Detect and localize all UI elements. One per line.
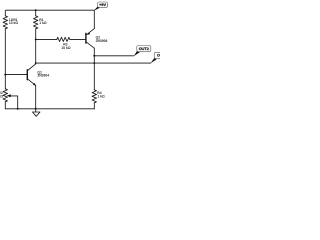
potentiometer R2 — [3, 89, 7, 102]
wire B Q1 collector node — [36, 62, 151, 65]
node A dot — [4, 74, 6, 76]
svg-text:2N3906: 2N3906 — [96, 39, 108, 43]
svg-text:10 kΩ: 10 kΩ — [9, 21, 19, 25]
svg-text:+9V: +9V — [99, 3, 106, 7]
wire top +9V rail — [5, 10, 94, 16]
node dot Q1 collector elbow — [35, 62, 37, 64]
power flag +9V — [94, 7, 100, 11]
wire jog A to B — [93, 56, 95, 63]
transistor Q2 body — [85, 33, 87, 43]
wire R3 left lead — [36, 38, 57, 40]
resistor R1 — [34, 16, 38, 29]
node dot wiper bottom — [17, 108, 19, 110]
wire base of Q1 from node A — [5, 74, 27, 76]
svg-text:10 kΩ: 10 kΩ — [61, 46, 71, 50]
net flag OUT1 clipped — [150, 58, 156, 63]
ground — [35, 109, 37, 112]
resistor LDR1 — [3, 16, 7, 29]
wire Q2 collector vertical — [93, 48, 95, 56]
wire Q1 emitter to ground rail — [35, 85, 37, 108]
node dot ground tap — [35, 108, 37, 110]
wire R4 top lead — [93, 63, 95, 90]
svg-text:1 kΩ: 1 kΩ — [97, 95, 105, 99]
resistor R4 — [92, 90, 96, 103]
wire R3 right lead to Q2 base — [70, 38, 86, 40]
svg-text:OUT2: OUT2 — [139, 47, 149, 51]
node dot wire A junction — [93, 55, 95, 57]
arrow Q1 emitter — [33, 83, 36, 86]
wire R2 wiper — [10, 96, 18, 109]
svg-text:50 kΩ: 50 kΩ — [0, 95, 3, 99]
wire Q2 emitter vertical from rail — [93, 10, 95, 28]
net flag OUT2 — [134, 51, 140, 56]
resistor R3 — [57, 37, 70, 41]
wire R1 top lead to rail — [35, 10, 37, 16]
node dot wire B R4 junction — [93, 62, 95, 64]
svg-text:2N3904: 2N3904 — [37, 74, 49, 78]
node dot R3 branch — [35, 38, 37, 40]
wire Q1 collector vertical — [35, 29, 37, 64]
wire R2 bottom lead — [4, 102, 6, 109]
svg-text:OUT1: OUT1 — [157, 54, 160, 58]
wire node A to R2 top — [4, 75, 6, 89]
node dot R1 top rail — [35, 9, 37, 11]
wire A collector to OUT2 — [94, 55, 134, 57]
arrow R2 wiper — [7, 94, 11, 97]
wire R4 bottom lead — [93, 103, 95, 109]
wire bottom ground rail — [5, 108, 94, 110]
transistor Q1 body — [26, 70, 28, 80]
svg-text:1 kΩ: 1 kΩ — [39, 21, 47, 25]
arrow Q2 emitter PNP — [87, 32, 90, 34]
wire left rail LDR1 to node A — [4, 29, 6, 75]
